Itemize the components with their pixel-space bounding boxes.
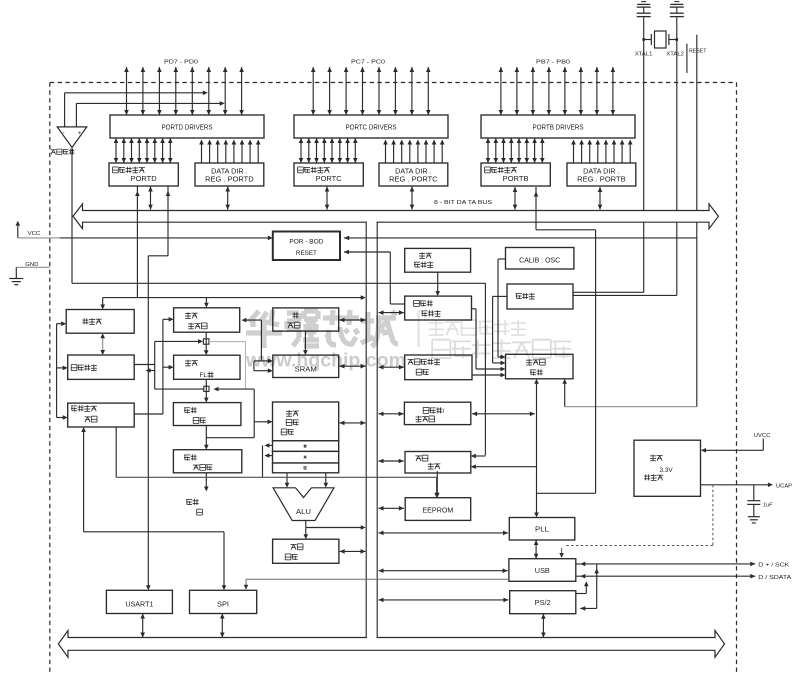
wire comparator input AIN1	[76, 101, 224, 127]
net label PB7 - PB0	[536, 60, 570, 66]
wire USB to rail	[379, 568, 508, 573]
watermark divider	[418, 310, 420, 347]
svg-text:USB: USB	[535, 568, 550, 575]
wire comparator output to interrupt unit	[72, 148, 485, 459]
watermark group line1	[429, 320, 526, 335]
svg-text:PS/2: PS/2	[535, 600, 551, 607]
wire PLL to USB	[534, 540, 539, 559]
svg-text:DATA DIR .: DATA DIR .	[211, 168, 248, 175]
wires DATA DIR reg to drivers	[383, 140, 444, 164]
block general purpose registers	[273, 402, 339, 441]
block PORTD DRIVERS	[110, 115, 264, 138]
wire regulator UCAP output	[701, 483, 793, 490]
wire debugWIRE to on-chip debug	[100, 333, 105, 355]
block CALIB OSC	[506, 248, 574, 270]
wire regs to ALU right	[324, 473, 329, 488]
wire EEPROM to rail	[379, 506, 404, 511]
block oscillator	[507, 284, 573, 309]
RESET pin bar	[686, 44, 688, 73]
block data register PORTB	[481, 163, 550, 186]
block PLL	[509, 518, 575, 541]
wires drivers to data register	[486, 138, 545, 163]
wire data reg PORTC to bus	[325, 187, 330, 210]
wire IR feed to GP registers	[254, 420, 272, 425]
svg-text:PD7 - PD0: PD7 - PD0	[164, 60, 198, 66]
wire to SRAM a	[254, 359, 273, 364]
svg-text:POR - BOD: POR - BOD	[289, 239, 323, 246]
svg-text:-: -	[63, 131, 65, 137]
bus data bus (bottom)	[58, 631, 724, 658]
capacitor XTAL1 load cap to ground	[637, 2, 651, 19]
VCC pin	[16, 221, 41, 238]
wire PORTB reg to PLL path	[534, 187, 596, 493]
wire int osc to watchdog	[435, 272, 440, 296]
wire IR to decoder	[204, 389, 254, 450]
wire GP rows left a	[264, 443, 272, 448]
wire regs to ALU left	[285, 473, 290, 488]
bus rail right	[376, 222, 378, 638]
block PS/2	[510, 591, 576, 614]
wire POR-BOD second reset input	[344, 250, 390, 255]
wire timing-control right leg	[562, 379, 567, 407]
wire watchdog to timing	[472, 309, 506, 372]
svg-text:PB7 - PB0: PB7 - PB0	[536, 60, 570, 66]
wire timer to clock net	[472, 412, 535, 417]
svg-text:8 - BIT DA TA BUS: 8 - BIT DA TA BUS	[434, 200, 492, 206]
wire prog logic bottom to spi line	[115, 427, 117, 477]
block PORTC DRIVERS	[294, 115, 448, 138]
wire ocd to flash a	[134, 364, 155, 366]
label 8-BIT DA TA BUS	[434, 200, 492, 206]
block USB	[509, 559, 576, 582]
wire watchdog to rail	[379, 310, 404, 315]
wire MCU ctrl to rail	[379, 365, 404, 370]
bus rail left	[366, 221, 376, 639]
wire RESET to POR-BOD	[344, 236, 697, 241]
op-amp analog comparator	[57, 127, 87, 148]
register row Y	[273, 451, 339, 463]
wire flash to IR	[204, 379, 209, 402]
wire interrupt to EEPROM	[435, 471, 440, 498]
block programming logic	[68, 403, 135, 427]
svg-text:D / SDATA: D / SDATA	[758, 575, 791, 581]
label analog comparator	[51, 149, 75, 155]
wire into gate1	[155, 339, 203, 389]
net label PD7 - PD0	[164, 60, 198, 66]
block debugWIRE	[66, 310, 134, 334]
wire GP rows left b	[263, 445, 273, 477]
junction gate flash-IR	[204, 386, 209, 391]
wire POR-BOD to watchdog	[390, 252, 404, 304]
wire UVCC to regulator	[701, 448, 763, 453]
block interrupt unit	[405, 452, 471, 474]
wire left feed to flash	[163, 365, 174, 370]
block internal oscillator	[405, 248, 471, 272]
wire D+ SCK line	[576, 562, 790, 569]
wire data reg PORTD to bus	[148, 187, 153, 210]
block program counter	[174, 308, 240, 332]
block POR-BOD RESET	[273, 232, 340, 261]
wires drivers to data register	[114, 138, 173, 163]
wire timing-control to PLL	[534, 379, 539, 518]
wire data reg PORTB to bus	[513, 187, 518, 210]
svg-text:REG . PORTB: REG . PORTB	[577, 177, 626, 184]
svg-text:1uF: 1uF	[763, 503, 773, 509]
wire calib osc to timing	[498, 259, 506, 359]
wire USART1 to bottom bus	[140, 614, 145, 638]
svg-text:PORTC: PORTC	[316, 176, 342, 183]
wire into gate2	[155, 387, 255, 392]
svg-text:PORTC DRIVERS: PORTC DRIVERS	[346, 125, 397, 132]
svg-text:DATA DIR .: DATA DIR .	[395, 168, 432, 175]
block instruction decoder	[173, 450, 241, 473]
svg-text:REG . PORTD: REG . PORTD	[205, 177, 254, 184]
wire prog logic right	[134, 413, 163, 415]
wire bus to PC top	[100, 295, 365, 309]
svg-text:PORTB: PORTB	[503, 176, 529, 183]
wire PLL to rail	[379, 531, 509, 536]
wires PORTC pins to drivers	[311, 67, 431, 115]
block USART1	[106, 590, 172, 613]
block EEPROM	[405, 498, 471, 521]
wire stack pointer to rail	[340, 318, 366, 323]
wire USB to PS2 elbow	[576, 581, 589, 593]
wire timing to interrupt	[471, 464, 537, 469]
block SPI	[190, 590, 257, 613]
svg-text:/: /	[443, 408, 445, 415]
svg-text:UCAP: UCAP	[776, 484, 792, 490]
block MCU control register	[405, 355, 472, 380]
block data register PORTD	[109, 163, 178, 186]
svg-text:SPI: SPI	[217, 601, 229, 608]
wire prog logic up-arrow	[81, 427, 86, 532]
wire status register to rail	[340, 549, 366, 554]
wire XTAL1 to oscillator	[573, 19, 644, 292]
wires DATA DIR reg to drivers	[199, 140, 260, 164]
block on-chip 3.3V regulator	[634, 440, 701, 496]
wires drivers to data register	[299, 138, 358, 163]
svg-text:CALIB . OSC: CALIB . OSC	[519, 258, 560, 265]
wire to SRAM b	[254, 361, 273, 373]
svg-text:+: +	[78, 131, 82, 137]
block program flash	[174, 355, 240, 379]
svg-text:USART1: USART1	[125, 601, 153, 608]
watermark url	[245, 350, 406, 372]
svg-text:PORTB DRIVERS: PORTB DRIVERS	[533, 125, 584, 132]
pin label XTAL2	[666, 52, 684, 58]
svg-text:www.hqchip.com: www.hqchip.com	[245, 350, 406, 372]
svg-text:XTAL2: XTAL2	[666, 52, 684, 58]
wires PORTB pins to drivers	[499, 67, 616, 115]
UVCC pin	[754, 433, 771, 450]
wire DATA DIR PORTB to bus	[598, 187, 603, 210]
block DATA DIR. REG. PORTD	[195, 163, 264, 186]
wire gray loop flash	[209, 342, 246, 390]
svg-text:REG . PORTC: REG . PORTC	[389, 177, 438, 184]
svg-text:DATA DIR .: DATA DIR .	[583, 168, 620, 175]
wire DATA DIR PORTD to bus	[225, 187, 230, 210]
wire MCU ctrl to timing	[472, 373, 506, 378]
watermark big hqchip characters	[246, 310, 398, 348]
block DATA DIR. REG. PORTB	[567, 163, 636, 186]
svg-text:D + / SCK: D + / SCK	[758, 562, 789, 568]
crystal Y1	[642, 31, 678, 48]
wire timer to rail	[379, 412, 404, 417]
wire UCAP dashed to USB	[559, 485, 713, 558]
wire reset net to timing	[565, 406, 697, 408]
wire ocd to flash b	[146, 368, 155, 373]
block on-chip debug	[68, 355, 135, 379]
svg-text:PC7 - PC0: PC7 - PC0	[351, 60, 385, 66]
wire PS2 to rail	[379, 598, 509, 603]
svg-text:EEPROM: EEPROM	[422, 508, 453, 515]
wire PC right from SRAM line	[242, 318, 262, 361]
block DATA DIR. REG. PORTC	[379, 163, 448, 186]
wire long control line to EEPROM	[116, 477, 439, 497]
capacitor C 1uF	[747, 485, 773, 523]
block watchdog timer	[405, 296, 472, 320]
pin label XTAL1	[635, 52, 653, 58]
wire prog logic to SPI	[84, 532, 227, 591]
wire stack pointer to SRAM	[303, 331, 308, 355]
block status register	[273, 539, 339, 563]
wire PC to flash	[204, 332, 209, 355]
register row X	[273, 441, 339, 452]
svg-text:PORTD DRIVERS: PORTD DRIVERS	[162, 125, 213, 132]
chip boundary (dashed)	[50, 83, 737, 675]
wire left feed to PC	[163, 317, 174, 414]
svg-text:PLL: PLL	[535, 527, 549, 534]
block stack pointer	[273, 308, 339, 331]
register row Z	[273, 463, 339, 473]
wire debug chain	[57, 321, 68, 419]
block timer/counters	[404, 402, 470, 424]
label control lines	[186, 499, 202, 515]
wire SRAM to rail	[340, 364, 366, 369]
alu ALU	[273, 488, 334, 521]
pin label RESET	[689, 49, 707, 55]
svg-text:FL: FL	[200, 372, 208, 379]
block SRAM	[273, 355, 339, 377]
wire decoder to control lines	[204, 473, 209, 492]
wire RESET down to POR-BOD and timing	[696, 35, 698, 407]
wire PORTD reg down-left to debugWIRE	[135, 187, 140, 298]
wire interrupt to rail	[379, 459, 404, 464]
wires DATA DIR reg to drivers	[571, 140, 632, 164]
wire comparator input AIN0	[65, 91, 208, 127]
wire D- SDATA line	[576, 574, 792, 581]
block data register PORTC	[294, 163, 363, 186]
wire ALU to status register	[304, 521, 366, 540]
svg-text:ALU: ALU	[296, 509, 311, 516]
svg-text:3.3V: 3.3V	[660, 467, 674, 474]
wire USB shared to SPI	[244, 579, 509, 590]
wire XTAL2 to oscillator	[573, 19, 677, 295]
wire DATA DIR PORTC to bus	[410, 187, 415, 210]
wire PS2 to bottom bus	[541, 614, 546, 638]
svg-text:RESET: RESET	[296, 250, 317, 257]
wire GP regs to rail	[340, 421, 366, 426]
junction gate PC-flash	[203, 339, 209, 344]
bus 8-BIT DATA BUS (top)	[73, 204, 718, 229]
svg-text:PORTD: PORTD	[131, 176, 157, 183]
svg-text:RESET: RESET	[689, 49, 707, 55]
watermark group line2	[432, 340, 571, 359]
wire oscillator to timing	[493, 296, 507, 365]
wires PORTD pins to drivers	[124, 67, 244, 115]
svg-text:VCC: VCC	[28, 231, 41, 237]
wire VCC to POR-BOD	[18, 236, 273, 241]
block PORTB DRIVERS	[481, 115, 635, 138]
block timing and control	[506, 354, 574, 379]
net label PC7 - PC0	[351, 60, 385, 66]
GND pin	[9, 262, 50, 285]
capacitor XTAL2 load cap to ground	[670, 2, 684, 19]
wire shared pins to PS2	[580, 564, 599, 611]
wire SPI to bottom bus	[220, 614, 225, 638]
svg-text:UVCC: UVCC	[754, 433, 771, 439]
wire PORTD reg to USART1 feed	[146, 187, 170, 591]
block instruction register	[173, 403, 241, 426]
